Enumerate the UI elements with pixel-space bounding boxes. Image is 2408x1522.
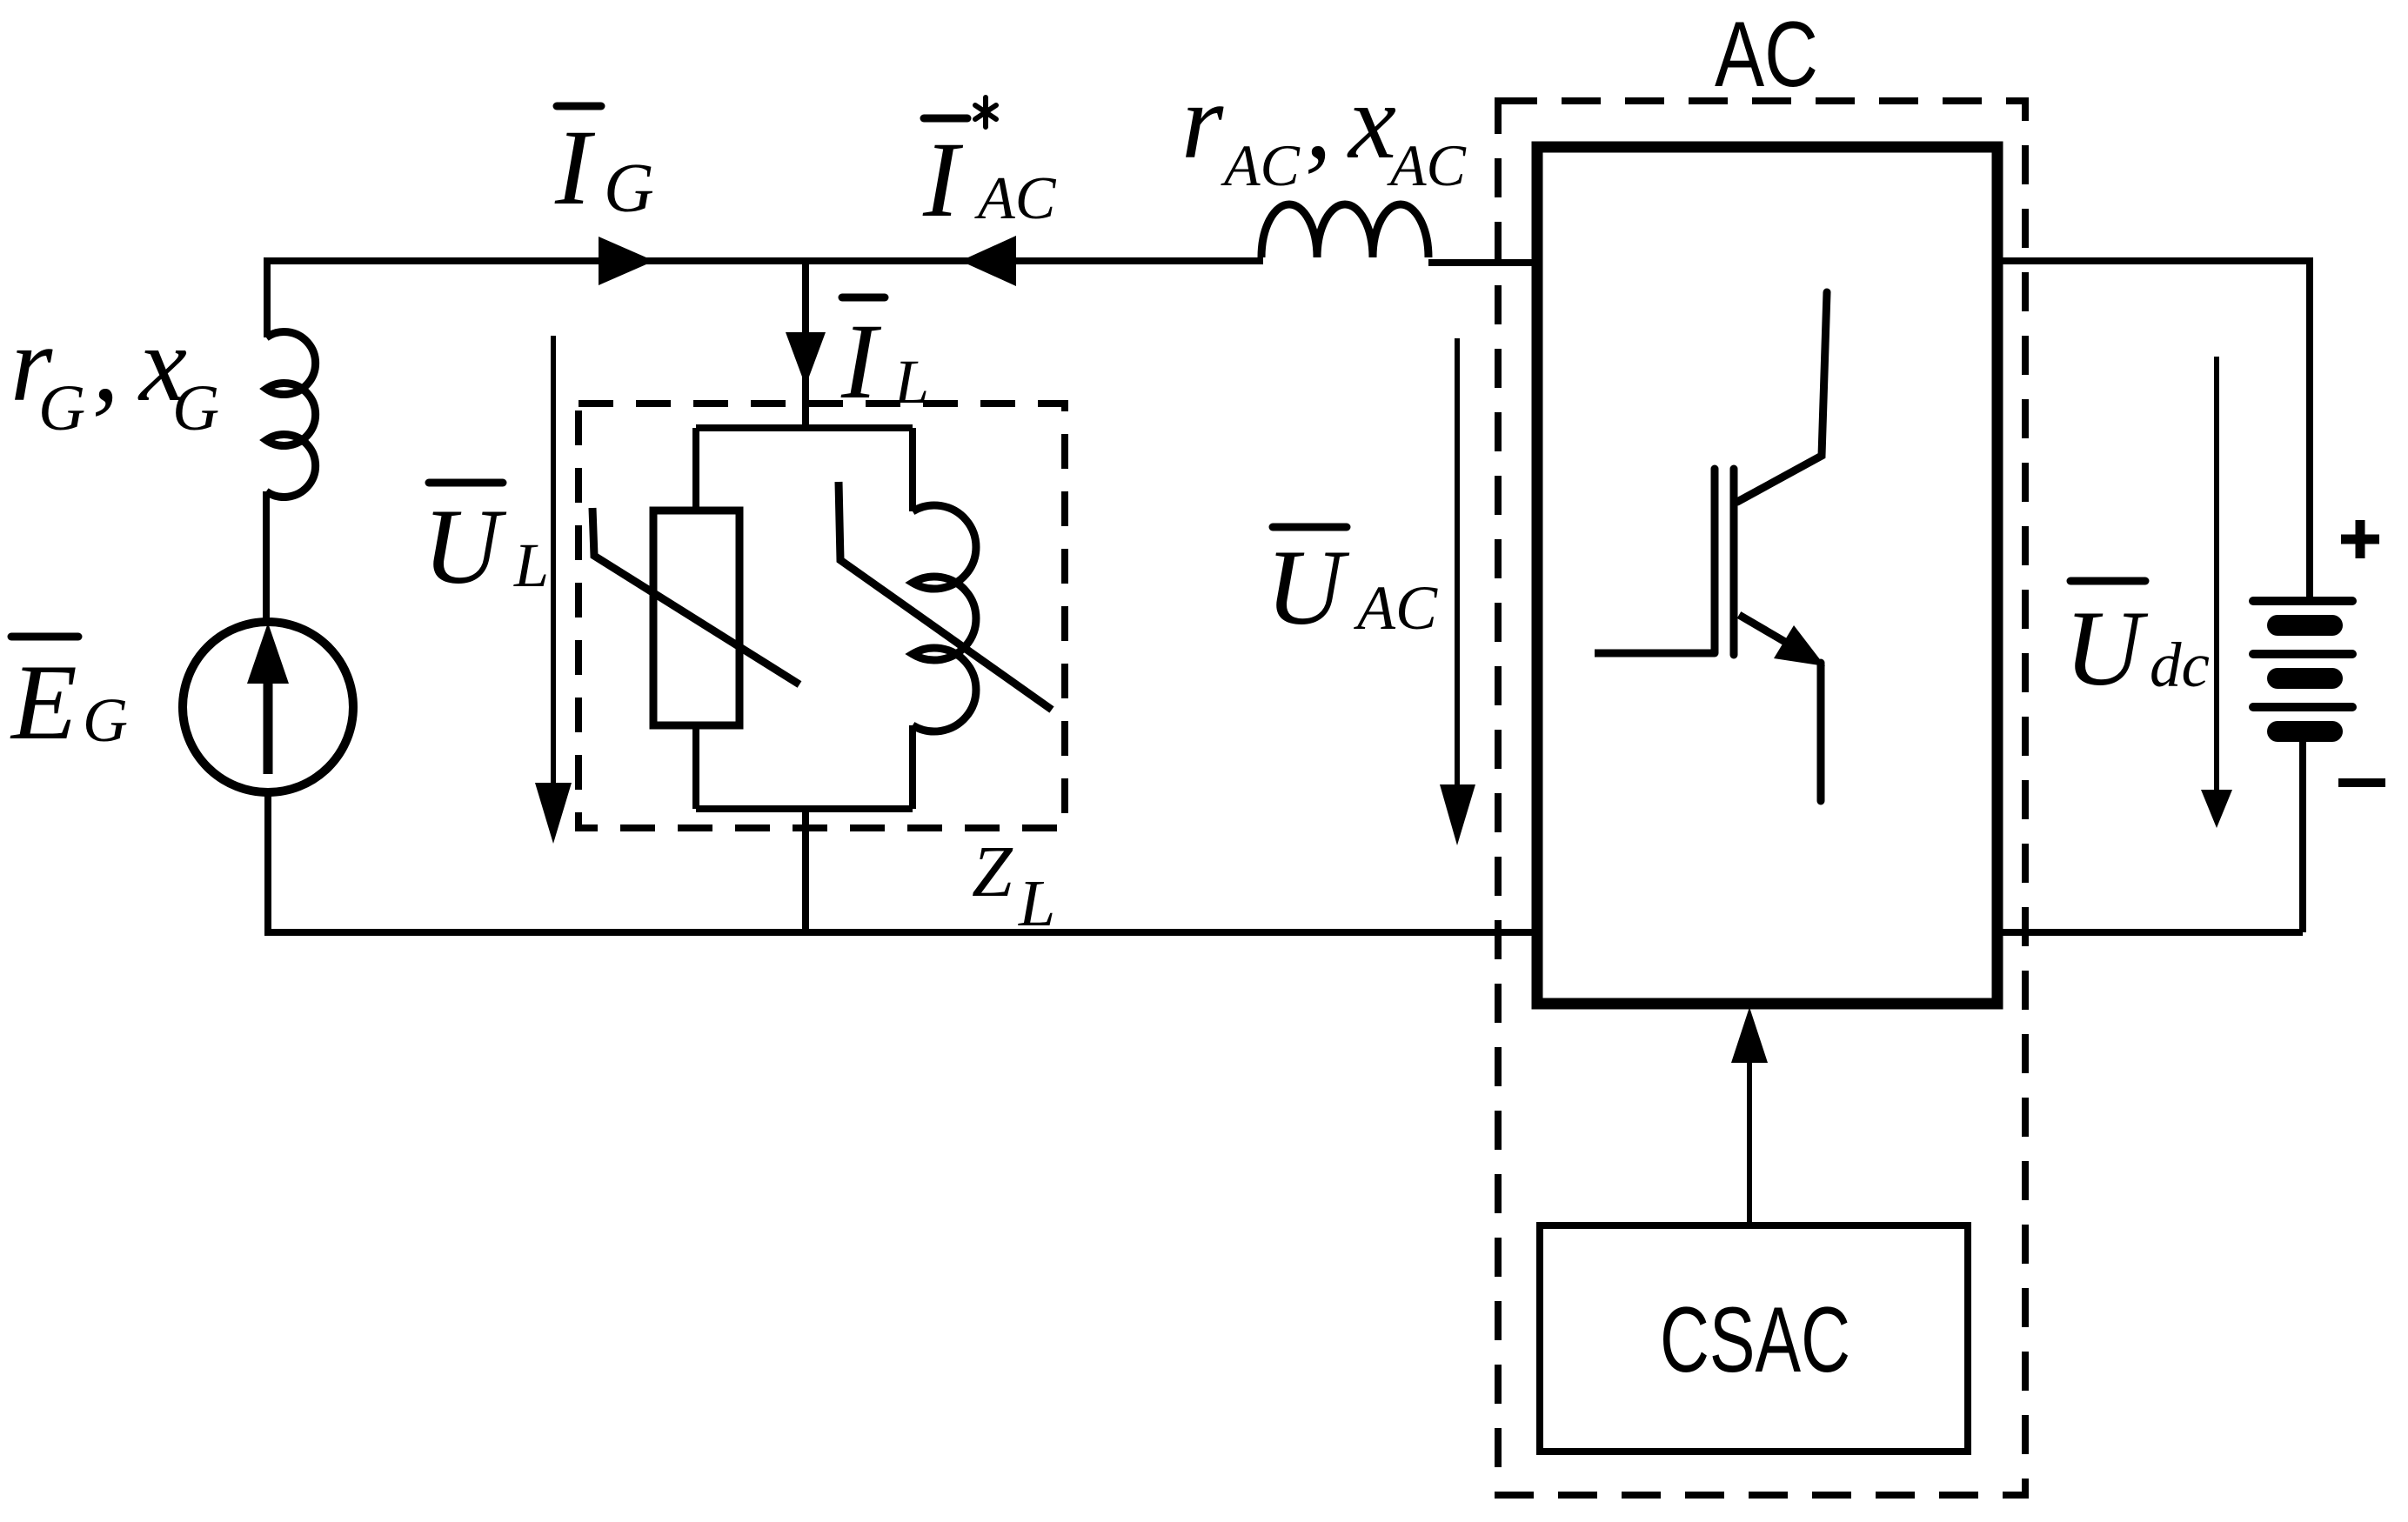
label r_G , x_G (10, 304, 219, 444)
label I*_AC with overbar (922, 97, 1057, 239)
wire: from AC inductor to converter left terminal (1428, 259, 1533, 266)
svg-text:G: G (38, 372, 85, 444)
svg-text:AC: AC (974, 165, 1057, 232)
voltage arrow U_dc (down) (2214, 357, 2219, 793)
svg-text:E: E (10, 643, 77, 762)
converter block (thick rectangle) (1537, 147, 1997, 1004)
label U_AC with overbar (1266, 527, 1438, 647)
battery plate (short thick) (2278, 668, 2332, 689)
wire: top bus from left corner to AC inductor (267, 257, 1263, 264)
svg-text:I: I (922, 120, 964, 239)
svg-text:,: , (92, 304, 119, 424)
wire: load branch drop from top bus (802, 261, 809, 428)
svg-text:G: G (83, 685, 128, 755)
svg-text:U: U (2064, 589, 2149, 708)
battery plate (long) (2253, 703, 2352, 711)
inductor r_G,x_G (vertical coil, 3 turns) (266, 332, 316, 497)
IGBT body bar (right) (1730, 469, 1738, 655)
voltage arrow U_L (down) (551, 336, 556, 788)
label U_dc with overbar (2064, 581, 2210, 708)
load inductor (vertical coil, 3 turns) (913, 505, 976, 731)
label I_L with overbar (840, 297, 929, 421)
minus sign (2338, 778, 2385, 787)
svg-text:r: r (1181, 62, 1224, 181)
wire: load inner loop bottom (696, 805, 913, 812)
svg-text:L: L (1018, 867, 1055, 940)
label U_L with overbar (423, 483, 549, 606)
svg-text:AC: AC (1354, 573, 1438, 643)
voltage source E_G (circle) (183, 622, 353, 792)
wire: load inner loop top (696, 424, 913, 431)
label I_G with overbar (554, 106, 654, 227)
svg-text:x: x (1347, 62, 1396, 181)
svg-text:I: I (554, 108, 596, 227)
IGBT collector lead (1737, 292, 1827, 502)
svg-text:dc: dc (2150, 630, 2210, 700)
label r_AC , x_AC (1181, 62, 1467, 198)
wire: converter right terminal to top-right corner and down to battery + (2001, 261, 2310, 598)
inductor r_AC,x_AC (horizontal coil, 3 turns) (1261, 204, 1428, 257)
battery plate (short thick) (2278, 721, 2332, 742)
battery positive plate (long) (2253, 597, 2352, 605)
current arrow I_L (pointing down into load) (786, 332, 826, 386)
svg-text:,: , (1305, 62, 1332, 181)
wire: load center drop to bottom bus (802, 809, 809, 932)
wire: varistor bottom to loop bottom (692, 725, 699, 809)
svg-text:CSAC: CSAC (1660, 1287, 1850, 1392)
CSAC block (1540, 1225, 1968, 1452)
load inductor arrow (diagonal with stub) (839, 482, 1052, 710)
wire: coil to voltage source (263, 491, 270, 626)
varistor body (rectangle) (653, 511, 739, 725)
IGBT gate bar (left) (1711, 469, 1719, 653)
wire: load inner loop right (inductor branch top) (909, 428, 916, 511)
current arrow I_G (pointing right on top bus) (599, 237, 654, 285)
svg-text:Z: Z (972, 831, 1013, 912)
svg-text:L: L (893, 347, 929, 417)
wire: voltage source to bottom bus (264, 792, 271, 932)
wire: battery negative to bottom bus (2299, 741, 2306, 932)
load dashed box Z_L (579, 404, 1065, 828)
IGBT gate lead (1595, 650, 1715, 658)
label Z_L (972, 831, 1055, 940)
varistor arrow (diagonal with stub) (592, 508, 799, 684)
wire: load inductor bottom to loop bottom (909, 725, 916, 809)
svg-text:AC: AC (1387, 132, 1467, 198)
svg-text:I: I (840, 302, 882, 421)
battery negative plate (short thick) (2278, 615, 2332, 636)
svg-text:AC: AC (1221, 132, 1301, 198)
label E_G with overbar (10, 637, 128, 762)
wire: load inner loop left (varistor branch top) (692, 428, 699, 511)
svg-text:U: U (1266, 528, 1350, 647)
svg-text:AC: AC (1715, 2, 1818, 106)
plus sign (2341, 520, 2379, 558)
svg-text:G: G (604, 150, 654, 227)
voltage source arrow (points up) (264, 678, 273, 774)
svg-text:U: U (423, 487, 507, 606)
IGBT emitter lead with arrow (1739, 615, 1785, 642)
wire: left vertical drop from top-left corner (264, 257, 271, 337)
battery plate (long) (2253, 650, 2352, 658)
control arrow from CSAC to converter (1747, 1059, 1752, 1225)
current arrow I_AC* (pointing left on top bus) (960, 236, 1016, 286)
svg-text:L: L (513, 531, 549, 600)
wire: bottom bus from converter right side to battery branch (2001, 929, 2303, 936)
AC converter dashed box (1498, 101, 2025, 1495)
voltage arrow U_AC (down) (1455, 338, 1460, 790)
svg-text:G: G (172, 372, 219, 444)
wire: bottom bus from generator to converter left side (264, 929, 1533, 936)
